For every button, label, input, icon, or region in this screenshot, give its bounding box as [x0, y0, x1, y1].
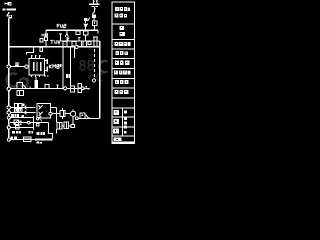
wire [62, 125, 71, 127]
watermark [7, 61, 108, 88]
marks [85, 86, 87, 87]
tall box [83, 41, 86, 47]
r1 line1 [115, 7, 119, 11]
terminal bar [35, 138, 52, 140]
stub [59, 34, 62, 41]
vertical stub [73, 47, 75, 58]
supply ticks top-middle [94, 0, 97, 3]
coil box KM1 [57, 123, 62, 129]
vertical link [33, 116, 35, 130]
label TUV [50, 40, 60, 43]
bottom cell [114, 138, 122, 142]
busbar L segment 1 [2, 8, 5, 10]
small box [36, 124, 39, 127]
r7 [115, 80, 119, 84]
junction dot E [8, 122, 10, 124]
label FU2 [57, 24, 66, 27]
tick [67, 38, 69, 41]
contact blade 2 [39, 112, 43, 116]
wire [94, 26, 96, 30]
wire [93, 18, 95, 21]
wire drop to stair [48, 123, 56, 139]
junction dot [94, 8, 96, 10]
comp box [23, 137, 30, 142]
node circle [92, 79, 95, 82]
component below wire [84, 31, 88, 35]
transformer top link [27, 47, 34, 55]
text row y131 [12, 131, 33, 134]
fuse pair row1 [15, 104, 18, 108]
r5 [115, 61, 119, 65]
dashed link [93, 49, 95, 79]
vertical R2 [70, 47, 72, 89]
marks below bar [37, 142, 39, 144]
wire top rail y30 [46, 29, 98, 31]
table row texts [112, 7, 134, 143]
r1 line2 [115, 13, 119, 17]
wire mid rail y40.8 [60, 40, 99, 42]
component below wire 2 [76, 31, 80, 34]
wire y127.4 [10, 126, 33, 128]
contact blade 1 [39, 105, 43, 109]
node circle [64, 87, 67, 90]
comp below wire y46.7 [40, 48, 43, 52]
vertical box [78, 83, 82, 92]
rail extension [8, 123, 10, 139]
terminal node A [7, 65, 10, 68]
r3 [115, 42, 119, 46]
fuse FU2 [8, 15, 12, 19]
wire [11, 66, 25, 68]
box comp [70, 86, 74, 92]
knife switch QS2 blade [93, 11, 95, 14]
wire y139.7 [10, 139, 35, 141]
contact diag [86, 115, 88, 118]
tick on wire [29, 87, 31, 89]
time relay KT [60, 110, 65, 116]
node circle on wire y118.3 [75, 117, 78, 120]
lamp HL [84, 18, 87, 21]
wire y117.6 [10, 117, 33, 119]
label KMB [49, 65, 59, 69]
wire [45, 30, 47, 37]
contact box [14, 120, 19, 125]
r2 [120, 26, 124, 30]
box below [17, 90, 23, 95]
fuse FU5 [45, 37, 48, 40]
wire y107.5 [11, 107, 36, 109]
busbar L segment 2 [7, 8, 16, 10]
transformer top ticks [32, 56, 40, 58]
wire from frame top right [51, 108, 57, 123]
r6 [114, 70, 118, 74]
switch contact [37, 118, 39, 120]
long vertical to relay cluster [99, 41, 101, 119]
knife switch QS1 blade [7, 13, 9, 15]
wire y122.5 [10, 122, 48, 124]
wire y118.3 [76, 117, 100, 119]
coil box KM2 [64, 122, 69, 128]
wire [45, 40, 47, 46]
wire [94, 7, 96, 11]
box on wire [45, 85, 49, 89]
small square [71, 124, 74, 127]
junction dot [57, 88, 58, 89]
relay box [80, 113, 85, 119]
contact K1 [65, 30, 68, 41]
thick bottom border [112, 142, 134, 144]
fuse FU4 [92, 21, 96, 26]
r4 [115, 51, 119, 55]
wire corner [97, 30, 99, 33]
label 18 [58, 64, 59, 67]
node circle [75, 45, 78, 48]
node circle y139.7 [7, 138, 10, 141]
node circle on frame [49, 112, 52, 115]
resistor block [34, 80, 38, 88]
label 3.2 [66, 74, 68, 78]
junction dot [70, 88, 71, 89]
wire y112.4 [11, 111, 36, 113]
node circle [28, 121, 31, 124]
contact above [17, 83, 23, 89]
junction dots on y46.7 [44, 46, 45, 47]
label HM [42, 34, 48, 37]
left rail wire [8, 18, 10, 122]
coil box 2 [72, 41, 76, 45]
terminal node B [7, 87, 10, 90]
vertical R1 [62, 47, 64, 89]
contact [78, 38, 81, 47]
text notches (black holes to give character texture) [115, 8, 128, 140]
secondary winding bars [47, 59, 49, 64]
fuse FU3 [92, 15, 96, 19]
wire [72, 116, 74, 124]
r8 [115, 90, 119, 94]
wire [52, 113, 60, 115]
label above [11, 114, 24, 117]
transformer right stubs [44, 61, 46, 71]
label MY [11, 137, 17, 139]
switch SA [15, 63, 19, 65]
junction dot [8, 12, 10, 14]
junction dot [76, 88, 77, 89]
wire bottom rail y88.5 [11, 88, 91, 90]
node circle y127.5 [7, 126, 10, 129]
comp [15, 125, 19, 129]
connector [88, 41, 91, 44]
transformer bottom ticks [32, 75, 40, 77]
label row ZG2 [37, 132, 45, 135]
double bars [93, 37, 98, 46]
wire long rail y46.7 [10, 46, 100, 48]
node circle [25, 65, 28, 68]
relay coil box [63, 41, 67, 46]
label box [40, 38, 43, 41]
fuse FU1 [8, 2, 12, 5]
transformer winding bars [33, 62, 35, 71]
fuse pair row2 [15, 108, 18, 112]
node circle [82, 87, 85, 90]
busbar N segment [89, 3, 99, 5]
terminal node D [7, 111, 10, 114]
wire [27, 66, 30, 68]
node dot on rail y46.6 [8, 46, 10, 48]
junction dot [89, 118, 91, 120]
transformer TC box [29, 58, 44, 75]
terminal node C [7, 106, 10, 109]
node circle y117.8 [7, 116, 10, 119]
meter circle [71, 111, 76, 116]
fuse FU1 lead [5, 3, 8, 5]
wire [65, 113, 71, 115]
component table [112, 2, 134, 144]
selector frame box [37, 104, 51, 119]
two-col rows [114, 110, 119, 115]
